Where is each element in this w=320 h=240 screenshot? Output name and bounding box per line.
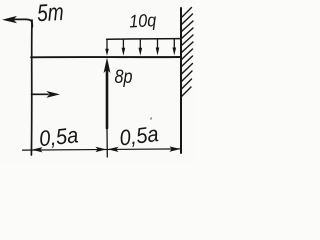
svg-text:5m: 5m <box>36 0 64 27</box>
svg-text:0,5a: 0,5a <box>38 122 79 151</box>
svg-text:8p: 8p <box>115 67 133 88</box>
svg-text:10q: 10q <box>129 10 157 31</box>
svg-text:0,5a: 0,5a <box>118 121 160 151</box>
